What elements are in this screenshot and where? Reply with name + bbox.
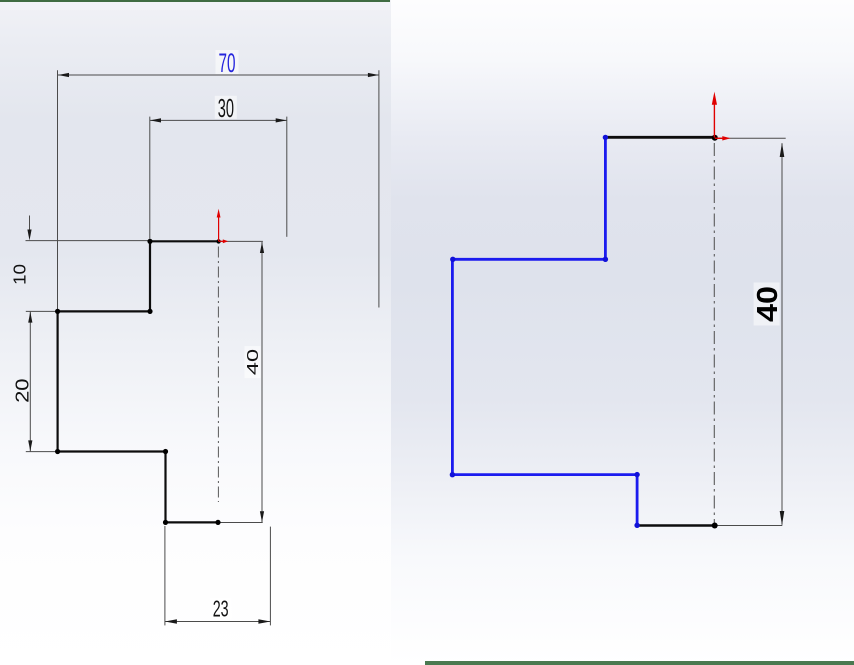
edge horizontal y451 [58, 450, 166, 452]
sketch top edge (black) [605, 136, 714, 139]
arrowheads left panel [27, 73, 379, 624]
arrow dim 10 down [27, 230, 31, 241]
bottom green strip [425, 661, 854, 665]
arrow dim 20 down [28, 440, 32, 451]
extension line for dim 40R (top) [715, 138, 786, 525]
extension line for dim 20 (top) [26, 310, 57, 312]
edge vertical x150 [149, 241, 151, 311]
arrow dim 23 left [165, 619, 177, 623]
svg-text:23: 23 [213, 596, 229, 622]
sketch endpoints right (black) [712, 135, 718, 529]
dim line 30 [150, 119, 287, 121]
arrow dim 30 left [150, 118, 161, 122]
svg-text:20: 20 [12, 379, 32, 403]
extension line for dim 23 (right) [269, 527, 271, 626]
arrow dim 20 up [28, 312, 32, 323]
arrow dim 70 right [368, 73, 379, 77]
arrow dim 23 right [258, 619, 270, 623]
edge vertical x165 [164, 452, 166, 523]
extension line for dim 10 (top) [26, 240, 149, 242]
svg-text:40: 40 [751, 286, 783, 322]
top green strip [0, 0, 390, 2]
sketch profile left (black edges) [58, 241, 219, 522]
edge horizontal y311 [58, 310, 150, 312]
edge vertical x57 [56, 311, 58, 451]
right viewport background [391, 0, 854, 665]
dim text halo 40R [754, 283, 780, 326]
sketch blue edges [452, 137, 637, 525]
extension line for dim 40 (top) [219, 240, 263, 242]
dim text halos left [210, 50, 261, 619]
dim line 20 [29, 312, 31, 452]
edge top horizontal [150, 240, 219, 242]
svg-text:40: 40 [245, 349, 262, 375]
sketch bottom edge (black) [637, 524, 715, 527]
svg-text:10: 10 [10, 264, 30, 285]
arrow dim 40 up [260, 242, 264, 253]
dim line 10 [29, 216, 31, 233]
extension line for dim 70 (left) [26, 70, 379, 625]
arrow dim 40 down [260, 511, 264, 522]
dim line 40R [781, 143, 783, 525]
extension line for dim 23 (left) [164, 526, 166, 625]
edge bottom horizontal [166, 521, 219, 523]
left viewport background [0, 0, 391, 665]
dim line 40 [261, 242, 263, 522]
sketch endpoints left [55, 239, 221, 525]
dim line 70 [58, 74, 379, 76]
extension line for dim 30 (right) [286, 117, 288, 237]
svg-text:70: 70 [219, 47, 236, 78]
centerline right sketch [713, 143, 715, 524]
origin arrows left (red) [217, 209, 229, 244]
centerline left sketch [217, 247, 219, 503]
extension line for dim 30 (left) [149, 117, 151, 239]
extension line for dim 70 (right) [378, 70, 380, 307]
extension line for dim 40R (bottom) [715, 525, 783, 527]
arrow dim 30 right [276, 118, 287, 122]
dim line 23 [165, 621, 271, 623]
extension line for dim 40 (bottom) [218, 522, 262, 524]
extension line for dim 20 (bottom) [26, 451, 57, 453]
arrow dim 70 left [58, 73, 69, 77]
origin arrows right (red) [712, 92, 731, 141]
arrow dim 40R down [780, 511, 785, 525]
svg-text:30: 30 [218, 93, 234, 123]
arrow dim 40R up [780, 143, 785, 525]
sketch endpoints right (blue) [450, 135, 640, 528]
